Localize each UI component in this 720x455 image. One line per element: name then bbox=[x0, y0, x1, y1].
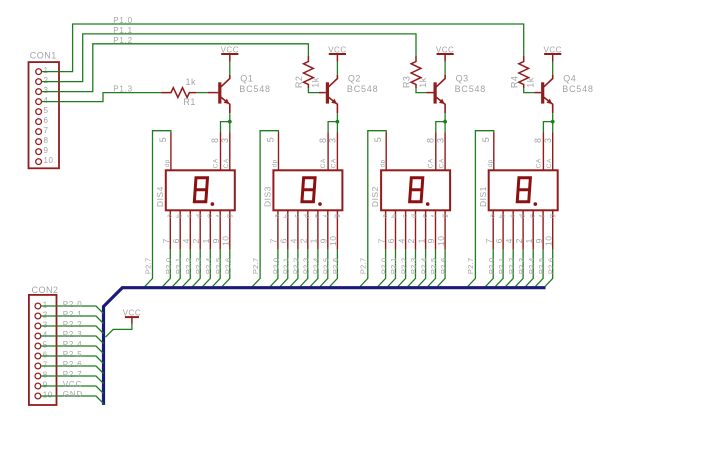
wire emitter of Q2 to display CA pins bbox=[328, 113, 337, 132]
wire net P2.3 to bus (DIS2) bbox=[408, 249, 416, 286]
CON1 pin 9 bbox=[36, 149, 42, 155]
svg-text:6: 6 bbox=[386, 238, 396, 243]
svg-text:P2.1: P2.1 bbox=[497, 257, 506, 274]
wire VCC to Q1 collector bbox=[229, 62, 231, 76]
svg-text:CON1: CON1 bbox=[30, 51, 57, 61]
svg-text:3: 3 bbox=[44, 86, 49, 95]
CON2 pin 9 bbox=[35, 383, 41, 389]
svg-text:VCC: VCC bbox=[328, 45, 346, 54]
svg-text:6: 6 bbox=[494, 238, 504, 243]
svg-text:10: 10 bbox=[328, 235, 338, 245]
svg-text:10: 10 bbox=[221, 235, 231, 245]
wire emitter of Q1 to display CA pins bbox=[221, 113, 230, 132]
svg-text:9: 9 bbox=[426, 238, 436, 243]
transistor base pin wire (R3) bbox=[427, 92, 434, 94]
svg-text:2: 2 bbox=[191, 238, 201, 243]
svg-text:3: 3 bbox=[435, 137, 445, 143]
digit 8 segments (DIS1) bbox=[517, 178, 530, 202]
svg-text:6: 6 bbox=[44, 116, 49, 125]
pin 9 segment f (DIS3) bbox=[327, 210, 329, 249]
svg-text:d: d bbox=[304, 214, 311, 218]
svg-text:DIS2: DIS2 bbox=[370, 186, 380, 207]
svg-text:P1.1: P1.1 bbox=[113, 26, 133, 35]
wire net VCC (CON2 pin 9 to bus) bbox=[41, 386, 103, 394]
svg-text:7: 7 bbox=[43, 361, 48, 370]
pin 1 segment e (DIS3) bbox=[317, 210, 319, 249]
wire R3 to transistor base bbox=[416, 88, 427, 93]
pin 3 CA (DIS3) bbox=[336, 133, 338, 171]
pin 4 segment c (DIS3) bbox=[297, 210, 299, 249]
wire net P2.7 (CON2 pin 8 to bus) bbox=[41, 376, 103, 384]
svg-text:g: g bbox=[334, 214, 341, 218]
pin 2 segment d (DIS1) bbox=[522, 210, 524, 249]
wire net P2.1 (CON2 pin 2 to bus) bbox=[41, 316, 103, 324]
svg-text:CON2: CON2 bbox=[32, 285, 59, 295]
svg-text:b: b bbox=[392, 214, 399, 218]
svg-text:c: c bbox=[402, 214, 409, 218]
CON2 pin 10 bbox=[35, 393, 41, 399]
svg-text:DIS3: DIS3 bbox=[263, 186, 273, 207]
svg-text:8: 8 bbox=[426, 137, 436, 143]
wire net P1.2 (CON1 pin3 to R2) bbox=[42, 44, 309, 92]
pin 10 segment g (DIS1) bbox=[552, 210, 554, 249]
svg-text:Q3: Q3 bbox=[456, 74, 469, 84]
supply VCC symbol near CON2 bbox=[125, 316, 139, 318]
svg-text:1: 1 bbox=[44, 66, 49, 75]
wire R1 to Q1 base bbox=[196, 92, 208, 94]
svg-text:dp: dp bbox=[487, 159, 494, 167]
CON1 pin 8 bbox=[36, 139, 42, 145]
wire net P2.0 to bus (DIS1) bbox=[486, 249, 494, 286]
pin 10 segment g (DIS4) bbox=[229, 210, 231, 249]
transistor base pin wire (R2) bbox=[319, 92, 326, 94]
wire net P2.4 to bus (DIS2) bbox=[418, 249, 426, 286]
svg-text:f: f bbox=[432, 215, 439, 217]
pin 3 CA (DIS2) bbox=[444, 133, 446, 171]
svg-text:f: f bbox=[324, 215, 331, 217]
svg-text:P2.1: P2.1 bbox=[282, 257, 291, 274]
CON1 pin 10 bbox=[36, 159, 42, 165]
svg-text:R3: R3 bbox=[402, 76, 412, 89]
wire VCC to Q4 collector bbox=[552, 62, 554, 76]
svg-text:CA: CA bbox=[535, 158, 542, 168]
pin 5 dp (DIS2) bbox=[385, 133, 387, 171]
svg-text:P2.0: P2.0 bbox=[164, 257, 173, 274]
svg-text:8: 8 bbox=[533, 137, 543, 143]
svg-text:9: 9 bbox=[319, 238, 329, 243]
svg-text:CA: CA bbox=[438, 158, 445, 168]
svg-text:dp: dp bbox=[272, 159, 279, 167]
wire net P2.0 (CON2 pin 1 to bus) bbox=[41, 306, 103, 314]
svg-text:P2.2: P2.2 bbox=[507, 257, 516, 274]
transistor Q4 BC548 bbox=[544, 75, 553, 87]
svg-text:P2.5: P2.5 bbox=[537, 257, 546, 274]
resistor R3 1k bbox=[411, 56, 421, 88]
svg-text:VCC: VCC bbox=[544, 45, 562, 54]
svg-text:e: e bbox=[207, 214, 214, 218]
pin 6 segment b (DIS3) bbox=[287, 210, 289, 249]
svg-text:P2.5: P2.5 bbox=[429, 257, 438, 274]
svg-text:6: 6 bbox=[279, 238, 289, 243]
supply VCC symbol at Q3 bbox=[437, 53, 454, 55]
svg-text:P2.7: P2.7 bbox=[466, 257, 475, 274]
svg-text:P2.1: P2.1 bbox=[174, 257, 183, 274]
svg-text:P2.5: P2.5 bbox=[63, 350, 83, 359]
CON1 pin 2 bbox=[36, 79, 42, 85]
CON1 pin 5 bbox=[36, 109, 42, 115]
wire net GND (CON2 pin 10 to bus) bbox=[41, 396, 103, 404]
decimal point (DIS2) bbox=[426, 202, 430, 206]
wire net P2.2 (CON2 pin 3 to bus) bbox=[41, 326, 103, 334]
wire emitter of Q4 to display CA pins bbox=[543, 113, 552, 132]
svg-text:7: 7 bbox=[269, 238, 279, 243]
transistor base pin wire (R4) bbox=[534, 92, 541, 94]
svg-text:8: 8 bbox=[43, 371, 48, 380]
svg-text:1k: 1k bbox=[526, 77, 536, 88]
svg-text:9: 9 bbox=[44, 146, 49, 155]
svg-text:P2.7: P2.7 bbox=[63, 370, 83, 379]
wire net P2.3 (CON2 pin 4 to bus) bbox=[41, 336, 103, 344]
junction node at Q3 emitter bbox=[443, 120, 447, 124]
svg-text:7: 7 bbox=[484, 238, 494, 243]
CON2 pin 3 bbox=[35, 323, 41, 329]
svg-text:7: 7 bbox=[44, 126, 49, 135]
svg-text:e: e bbox=[314, 214, 321, 218]
svg-text:P2.6: P2.6 bbox=[439, 257, 448, 274]
svg-text:R4: R4 bbox=[509, 76, 519, 89]
svg-text:10: 10 bbox=[44, 156, 54, 165]
svg-text:5: 5 bbox=[481, 137, 491, 143]
wire net P2.1 to bus (DIS1) bbox=[496, 249, 504, 286]
svg-text:3: 3 bbox=[43, 321, 48, 330]
wire net P2.3 to bus (DIS1) bbox=[516, 249, 524, 286]
wire net P2.4 to bus (DIS4) bbox=[203, 249, 211, 286]
svg-text:9: 9 bbox=[534, 238, 544, 243]
svg-text:Q4: Q4 bbox=[563, 74, 576, 84]
svg-text:Q2: Q2 bbox=[348, 74, 361, 84]
pin 8 CA (DIS2) bbox=[435, 133, 437, 171]
pin 3 CA (DIS4) bbox=[229, 133, 231, 171]
supply VCC symbol at Q1 bbox=[221, 53, 238, 55]
svg-text:5: 5 bbox=[158, 137, 168, 143]
wire net P2.5 to bus (DIS4) bbox=[213, 249, 221, 286]
svg-text:P2.3: P2.3 bbox=[302, 257, 311, 274]
svg-text:P2.2: P2.2 bbox=[63, 320, 83, 329]
svg-text:7: 7 bbox=[376, 238, 386, 243]
CON2 pin 2 bbox=[35, 313, 41, 319]
svg-text:CA: CA bbox=[428, 158, 435, 168]
svg-text:1: 1 bbox=[201, 238, 211, 243]
wire VCC to Q2 collector bbox=[336, 62, 338, 76]
wire net P2.7 dp (DIS1) bbox=[468, 131, 494, 287]
CON1 pin 4 bbox=[36, 99, 42, 105]
supply VCC symbol at Q2 bbox=[329, 53, 346, 55]
connector CON2 bbox=[29, 295, 57, 405]
pin 6 segment b (DIS1) bbox=[502, 210, 504, 249]
wire net P2.1 to bus (DIS2) bbox=[388, 249, 396, 286]
svg-text:P2.5: P2.5 bbox=[214, 257, 223, 274]
pin 7 segment a (DIS3) bbox=[277, 210, 279, 249]
CON2 pin 5 bbox=[35, 343, 41, 349]
pin 8 CA (DIS3) bbox=[327, 133, 329, 171]
wire net P2.4 to bus (DIS1) bbox=[526, 249, 534, 286]
CON1 pin 6 bbox=[36, 119, 42, 125]
wire net P2.5 to bus (DIS3) bbox=[320, 249, 328, 286]
svg-text:4: 4 bbox=[44, 96, 49, 105]
svg-text:6: 6 bbox=[171, 238, 181, 243]
wire net P1.0 (CON1 pin1 to R4) bbox=[42, 24, 524, 72]
pin 8 CA (DIS4) bbox=[220, 133, 222, 171]
svg-text:4: 4 bbox=[181, 238, 191, 243]
svg-text:R1: R1 bbox=[183, 97, 196, 107]
svg-text:g: g bbox=[549, 214, 556, 218]
pin 9 segment f (DIS1) bbox=[542, 210, 544, 249]
CON2 pin 4 bbox=[35, 333, 41, 339]
wire net P1.3 (CON1 pin4 to R1) bbox=[42, 93, 161, 102]
digit 8 segments (DIS2) bbox=[410, 178, 423, 202]
transistor Q1 BC548 bbox=[221, 75, 230, 87]
CON1 pin 3 bbox=[36, 89, 42, 95]
svg-text:d: d bbox=[412, 214, 419, 218]
Q1 base pin wire bbox=[208, 92, 219, 94]
svg-text:b: b bbox=[499, 214, 506, 218]
svg-text:a: a bbox=[489, 214, 496, 218]
svg-text:4: 4 bbox=[396, 238, 406, 243]
svg-text:Q1: Q1 bbox=[240, 74, 253, 84]
wire net P2.3 to bus (DIS3) bbox=[300, 249, 308, 286]
svg-text:CA: CA bbox=[546, 158, 553, 168]
svg-text:c: c bbox=[509, 214, 516, 218]
svg-text:2: 2 bbox=[44, 76, 49, 85]
wire net P2.6 to bus (DIS1) bbox=[545, 249, 553, 286]
svg-text:dp: dp bbox=[379, 159, 386, 167]
svg-text:P2.6: P2.6 bbox=[546, 257, 555, 274]
pin 5 dp (DIS4) bbox=[170, 133, 172, 171]
pin 10 segment g (DIS3) bbox=[336, 210, 338, 249]
svg-text:P2.3: P2.3 bbox=[409, 257, 418, 274]
wire net P2.2 to bus (DIS4) bbox=[183, 249, 191, 286]
wire net P2.5 to bus (DIS2) bbox=[428, 249, 436, 286]
pin 2 segment d (DIS2) bbox=[415, 210, 417, 249]
wire net P2.7 dp (DIS4) bbox=[145, 131, 171, 287]
pin 1 segment e (DIS2) bbox=[425, 210, 427, 249]
svg-text:d: d bbox=[196, 214, 203, 218]
svg-text:d: d bbox=[519, 214, 526, 218]
svg-text:1: 1 bbox=[43, 301, 48, 310]
svg-text:e: e bbox=[529, 214, 536, 218]
svg-text:DIS4: DIS4 bbox=[155, 186, 165, 207]
svg-text:3: 3 bbox=[220, 137, 230, 143]
svg-text:P2.0: P2.0 bbox=[379, 257, 388, 274]
pin 1 segment e (DIS1) bbox=[532, 210, 534, 249]
svg-text:2: 2 bbox=[43, 311, 48, 320]
svg-text:BC548: BC548 bbox=[239, 84, 271, 94]
svg-text:VCC: VCC bbox=[63, 380, 82, 389]
supply VCC symbol at Q4 bbox=[544, 53, 561, 55]
wire net P2.2 to bus (DIS1) bbox=[506, 249, 514, 286]
pin 9 segment f (DIS2) bbox=[435, 210, 437, 249]
svg-text:f: f bbox=[539, 215, 546, 217]
pin 3 CA (DIS1) bbox=[552, 133, 554, 171]
svg-text:P2.3: P2.3 bbox=[194, 257, 203, 274]
svg-text:CA: CA bbox=[212, 158, 219, 168]
svg-text:e: e bbox=[422, 214, 429, 218]
pin 4 segment c (DIS1) bbox=[512, 210, 514, 249]
svg-text:10: 10 bbox=[543, 235, 553, 245]
svg-text:P2.2: P2.2 bbox=[184, 257, 193, 274]
svg-text:a: a bbox=[382, 214, 389, 218]
svg-text:P2.7: P2.7 bbox=[251, 257, 260, 274]
wire net P2.4 (CON2 pin 5 to bus) bbox=[41, 346, 103, 354]
svg-text:VCC: VCC bbox=[221, 45, 239, 54]
wire emitter of Q3 to display CA pins bbox=[436, 113, 445, 132]
resistor R4 1k bbox=[519, 56, 529, 88]
CON2 pin 8 bbox=[35, 373, 41, 379]
svg-text:P2.6: P2.6 bbox=[63, 360, 83, 369]
wire net P2.0 to bus (DIS2) bbox=[378, 249, 386, 286]
svg-text:10: 10 bbox=[43, 391, 53, 400]
svg-text:P2.5: P2.5 bbox=[322, 257, 331, 274]
transistor Q3 BC548 bbox=[436, 75, 445, 87]
svg-text:P2.6: P2.6 bbox=[224, 257, 233, 274]
svg-text:1: 1 bbox=[524, 238, 534, 243]
transistor Q2 BC548 bbox=[329, 75, 338, 87]
wire net P1.1 (CON1 pin2 to R3) bbox=[42, 34, 416, 82]
svg-text:5: 5 bbox=[373, 137, 383, 143]
pin 2 segment d (DIS3) bbox=[307, 210, 309, 249]
svg-text:8: 8 bbox=[44, 136, 49, 145]
pin 9 segment f (DIS4) bbox=[219, 210, 221, 249]
junction node at Q1 emitter bbox=[228, 120, 232, 124]
wire R4 to transistor base bbox=[524, 88, 535, 93]
svg-text:GND: GND bbox=[63, 390, 83, 399]
wire VCC to Q3 collector bbox=[444, 62, 446, 76]
svg-text:BC548: BC548 bbox=[347, 84, 379, 94]
wire net P2.7 dp (DIS2) bbox=[360, 131, 386, 287]
svg-text:2: 2 bbox=[514, 238, 524, 243]
svg-text:c: c bbox=[187, 214, 194, 218]
svg-text:CA: CA bbox=[320, 158, 327, 168]
svg-text:BC548: BC548 bbox=[562, 84, 594, 94]
svg-text:7: 7 bbox=[161, 238, 171, 243]
7-segment display DIS4 bbox=[166, 170, 235, 210]
wire net P2.4 to bus (DIS3) bbox=[310, 249, 318, 286]
svg-text:R2: R2 bbox=[294, 76, 304, 89]
svg-text:P2.3: P2.3 bbox=[63, 330, 83, 339]
svg-text:P2.4: P2.4 bbox=[204, 257, 213, 274]
svg-text:P1.0: P1.0 bbox=[113, 16, 133, 25]
wire net P2.0 to bus (DIS4) bbox=[163, 249, 171, 286]
pin 4 segment c (DIS4) bbox=[189, 210, 191, 249]
wire net P2.6 (CON2 pin 7 to bus) bbox=[41, 366, 103, 374]
svg-text:1: 1 bbox=[416, 238, 426, 243]
svg-text:9: 9 bbox=[211, 238, 221, 243]
svg-text:10: 10 bbox=[436, 235, 446, 245]
pin 4 segment c (DIS2) bbox=[405, 210, 407, 249]
svg-text:3: 3 bbox=[328, 137, 338, 143]
decimal point (DIS4) bbox=[211, 202, 215, 206]
svg-text:2: 2 bbox=[406, 238, 416, 243]
svg-text:1k: 1k bbox=[418, 77, 428, 88]
svg-text:dp: dp bbox=[164, 159, 171, 167]
svg-text:P1.2: P1.2 bbox=[113, 36, 133, 45]
junction node at Q4 emitter bbox=[551, 120, 555, 124]
bus P2[0..7] bbox=[104, 288, 546, 405]
svg-text:g: g bbox=[441, 214, 448, 218]
wire net P2.7 dp (DIS3) bbox=[253, 131, 279, 287]
svg-text:P2.0: P2.0 bbox=[272, 257, 281, 274]
pin 5 dp (DIS3) bbox=[278, 133, 280, 171]
svg-text:P2.2: P2.2 bbox=[399, 257, 408, 274]
pin 1 segment e (DIS4) bbox=[209, 210, 211, 249]
svg-text:a: a bbox=[167, 214, 174, 218]
svg-text:P2.4: P2.4 bbox=[312, 257, 321, 274]
svg-text:CA: CA bbox=[223, 158, 230, 168]
svg-text:1k: 1k bbox=[310, 77, 320, 88]
7-segment display DIS1 bbox=[489, 170, 558, 210]
svg-text:DIS1: DIS1 bbox=[478, 186, 488, 207]
wire net P2.6 to bus (DIS4) bbox=[222, 249, 230, 286]
svg-text:b: b bbox=[284, 214, 291, 218]
decimal point (DIS3) bbox=[318, 202, 322, 206]
svg-text:P2.1: P2.1 bbox=[63, 310, 83, 319]
wire net P2.1 to bus (DIS3) bbox=[280, 249, 288, 286]
svg-text:1: 1 bbox=[309, 238, 319, 243]
pin 8 CA (DIS1) bbox=[542, 133, 544, 171]
resistor R1 1k bbox=[161, 88, 196, 98]
wire net P2.2 to bus (DIS3) bbox=[290, 249, 298, 286]
wire net P2.6 to bus (DIS2) bbox=[438, 249, 446, 286]
svg-text:P2.7: P2.7 bbox=[143, 257, 152, 274]
wire net P2.5 (CON2 pin 6 to bus) bbox=[41, 356, 103, 364]
svg-text:P2.0: P2.0 bbox=[487, 257, 496, 274]
decimal point (DIS1) bbox=[534, 202, 538, 206]
svg-text:P2.0: P2.0 bbox=[63, 300, 83, 309]
svg-text:c: c bbox=[294, 214, 301, 218]
pin 2 segment d (DIS4) bbox=[199, 210, 201, 249]
pin 7 segment a (DIS1) bbox=[492, 210, 494, 249]
svg-text:b: b bbox=[176, 214, 183, 218]
wire net P2.1 to bus (DIS4) bbox=[173, 249, 181, 286]
svg-text:2: 2 bbox=[299, 238, 309, 243]
pin 10 segment g (DIS2) bbox=[444, 210, 446, 249]
svg-text:P1.3: P1.3 bbox=[113, 85, 133, 94]
svg-text:f: f bbox=[216, 215, 223, 217]
wire VCC to bus bbox=[106, 324, 132, 337]
pin 5 dp (DIS1) bbox=[493, 133, 495, 171]
wire net P2.5 to bus (DIS1) bbox=[536, 249, 544, 286]
7-segment display DIS2 bbox=[381, 170, 450, 210]
svg-text:g: g bbox=[226, 214, 233, 218]
resistor R2 1k bbox=[304, 56, 314, 88]
svg-text:P2.7: P2.7 bbox=[359, 257, 368, 274]
connector CON1 bbox=[29, 62, 60, 168]
pin 6 segment b (DIS2) bbox=[395, 210, 397, 249]
svg-text:8: 8 bbox=[210, 137, 220, 143]
wire net P2.6 to bus (DIS3) bbox=[330, 249, 338, 286]
CON1 pin 7 bbox=[36, 129, 42, 135]
svg-text:4: 4 bbox=[43, 331, 48, 340]
svg-text:P2.3: P2.3 bbox=[517, 257, 526, 274]
CON2 pin 7 bbox=[35, 363, 41, 369]
wire R2 to transistor base bbox=[308, 88, 319, 93]
svg-text:P2.2: P2.2 bbox=[292, 257, 301, 274]
svg-text:3: 3 bbox=[543, 137, 553, 143]
junction node at Q2 emitter bbox=[336, 120, 340, 124]
pin 7 segment a (DIS2) bbox=[385, 210, 387, 249]
svg-text:P2.4: P2.4 bbox=[419, 257, 428, 274]
wire net P2.3 to bus (DIS4) bbox=[193, 249, 201, 286]
